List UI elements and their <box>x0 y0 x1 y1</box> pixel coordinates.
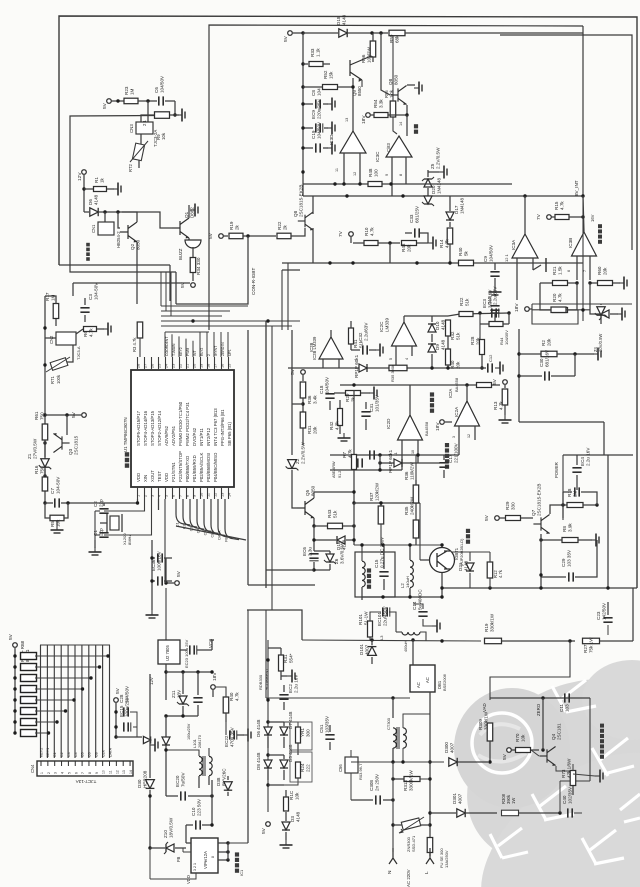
svg-text:11: 11 <box>335 168 339 172</box>
transistor Q2 <box>120 222 137 242</box>
wire R40 down <box>447 365 449 368</box>
svg-text:ADV9/P52: ADV9/P52 <box>164 425 169 446</box>
wire ct300 sec down <box>402 748 404 762</box>
svg-text:7: 7 <box>178 495 182 497</box>
wire R43 <box>314 525 327 527</box>
resistor RB1 <box>21 653 37 660</box>
wire D16 <box>314 539 336 541</box>
wire <box>361 392 370 394</box>
resistor R29c <box>506 516 521 521</box>
junction <box>196 670 199 673</box>
junction <box>226 858 229 861</box>
wire z10 <box>150 847 165 849</box>
svg-text:Z5: Z5 <box>430 163 435 169</box>
wire <box>97 328 104 330</box>
svg-text:4007: 4007 <box>457 793 462 804</box>
wire R52 wires <box>303 86 323 88</box>
svg-text:R70: R70 <box>515 733 520 742</box>
wire d38 <box>227 776 229 780</box>
wire zc path <box>490 641 570 700</box>
svg-text:R03.96-T: R03.96-T <box>358 763 363 780</box>
wire IGBT gate <box>420 559 429 561</box>
zener Z2 <box>288 460 297 469</box>
svg-text:1.5k: 1.5k <box>557 266 562 275</box>
junction <box>164 748 167 751</box>
connector CN4 <box>37 761 133 776</box>
svg-text:Z11: Z11 <box>171 690 176 698</box>
junction <box>541 696 544 699</box>
svg-text:D30: D30 <box>137 779 142 788</box>
svg-text:C8: C8 <box>95 752 99 757</box>
svg-text:KEY1: KEY1 <box>46 748 50 757</box>
resistor R43b <box>402 241 417 246</box>
diode D28 <box>162 737 170 745</box>
svg-text:3.3u: 3.3u <box>307 547 312 556</box>
svg-text:C18: C18 <box>319 385 324 394</box>
resistor R35b <box>389 365 407 371</box>
junction <box>408 543 411 546</box>
svg-text:13V: 13V <box>176 689 181 698</box>
wire y762 long <box>351 761 444 763</box>
junction <box>65 413 68 416</box>
svg-text:IC2B: IC2B <box>309 342 314 352</box>
svg-text:D18: D18 <box>336 16 341 25</box>
svg-text:100/2W: 100/2W <box>366 47 371 63</box>
ground R6 <box>103 328 108 330</box>
wire net y196 <box>303 195 583 197</box>
wire EC3 down <box>494 313 496 322</box>
wire <box>323 147 328 149</box>
inductor L101 pri <box>199 756 202 775</box>
ground Q1 <box>190 209 195 211</box>
svg-text:R60: R60 <box>597 266 602 275</box>
wire to IC3C <box>406 115 408 136</box>
diode D16 <box>337 536 345 544</box>
svg-text:10k: 10k <box>161 132 166 140</box>
junction kb <box>72 698 75 701</box>
wire c10 <box>186 824 193 826</box>
wire coil top <box>361 545 363 561</box>
ground R8 <box>591 539 596 541</box>
wire kb row <box>35 710 66 712</box>
wire y570 left <box>266 569 314 571</box>
box heating coil <box>355 552 395 597</box>
junction <box>66 501 69 504</box>
label IC1 cjk <box>235 869 239 873</box>
resistor R21 <box>553 281 568 286</box>
wire <box>343 525 354 527</box>
wire <box>613 282 620 284</box>
capacitor EC4b <box>574 487 576 496</box>
wire Q5 emitter <box>313 518 315 526</box>
svg-text:R40: R40 <box>229 692 234 701</box>
wire c51 <box>329 725 331 732</box>
ground c14b <box>432 625 437 627</box>
svg-text:750: 750 <box>39 412 44 420</box>
op-amp IC3B <box>572 232 597 256</box>
wire net y455 <box>330 454 459 456</box>
wire center vert A <box>265 321 267 585</box>
resistor R30b <box>477 383 492 388</box>
svg-text:6: 6 <box>171 495 175 497</box>
svg-text:4.7k: 4.7k <box>444 239 449 248</box>
capacitor C19 <box>315 143 317 152</box>
wire R32-R40 <box>447 336 449 349</box>
wire kb row <box>35 677 91 679</box>
wire <box>283 702 285 710</box>
diode D9 <box>428 344 436 352</box>
svg-text:5u 400DC: 5u 400DC <box>417 589 422 610</box>
svg-text:470u 35V: 470u 35V <box>229 726 234 747</box>
junction <box>388 241 391 244</box>
5V terminal Q7 <box>495 516 500 521</box>
transistor Q3 <box>53 433 69 452</box>
resistor R19 <box>229 233 243 239</box>
svg-text:RT2: RT2 <box>128 163 133 172</box>
diode D10 <box>428 324 436 332</box>
wire <box>283 737 285 748</box>
svg-text:C51: C51 <box>319 724 324 733</box>
wire Q1 base <box>122 212 172 228</box>
zener Z1 <box>41 459 49 467</box>
resistor R44b <box>489 322 503 327</box>
svg-text:7V: 7V <box>338 230 344 237</box>
junction <box>446 366 449 369</box>
ground q4 <box>595 775 600 777</box>
svg-text:POWER: POWER <box>554 462 559 478</box>
wire Q2 emitter <box>136 242 138 304</box>
wire C29 <box>541 576 566 578</box>
svg-text:EC22: EC22 <box>224 735 229 747</box>
wire x543 <box>542 698 544 750</box>
18V terminal sync <box>440 420 445 425</box>
wire R55 to IC3C out <box>393 117 397 134</box>
wire psu mid <box>165 664 167 700</box>
svg-text:104/50V: 104/50V <box>159 75 164 93</box>
wire <box>531 749 539 751</box>
wire c11 right <box>571 697 590 699</box>
wire y270 <box>282 269 300 271</box>
junction <box>358 182 361 185</box>
svg-text:18V: 18V <box>514 303 520 312</box>
label sync cjk <box>430 409 434 413</box>
svg-text:3: 3 <box>150 495 154 497</box>
svg-text:4.7k: 4.7k <box>234 692 239 701</box>
svg-text:TJC3-2A: TJC3-2A <box>153 130 158 147</box>
capacitor C29 <box>568 572 570 581</box>
diode D101 <box>368 647 377 656</box>
svg-text:SB P65 (B1): SB P65 (B1) <box>227 422 232 446</box>
wire x380 vert <box>379 455 381 470</box>
capacitor EC3 <box>490 305 499 307</box>
5V terminal q4 <box>507 748 512 753</box>
resistor R22 <box>277 233 291 239</box>
svg-text:1k: 1k <box>99 177 104 183</box>
svg-text:R101: R101 <box>358 614 363 625</box>
svg-text:R10: R10 <box>364 227 369 236</box>
wire Q9 collector down <box>352 78 354 131</box>
svg-text:D3: D3 <box>290 816 295 822</box>
diode RP1P b <box>394 459 402 467</box>
wire gate from R <box>419 503 421 560</box>
svg-text:1.1k: 1.1k <box>315 48 320 57</box>
7V terminal <box>349 232 354 237</box>
ground R5 <box>56 525 58 530</box>
svg-text:C14: C14 <box>412 601 417 610</box>
svg-text:104/50V: 104/50V <box>488 244 493 262</box>
svg-text:1W: 1W <box>511 798 516 804</box>
wire C28 chain <box>115 703 117 737</box>
wire x575 <box>574 354 576 376</box>
capacitor C14x <box>418 611 427 613</box>
capacitor C1 <box>99 532 108 534</box>
wire y698 long <box>265 610 267 698</box>
op-amp IC2A <box>455 401 480 426</box>
svg-text:SSD-471: SSD-471 <box>411 835 416 852</box>
svg-text:R29: R29 <box>505 501 510 510</box>
wire gnd q4 <box>573 774 595 776</box>
keyboard column wire C6 <box>88 645 90 758</box>
junction <box>517 352 520 355</box>
wire osc top <box>73 282 190 284</box>
wire r73 down <box>572 786 574 795</box>
wire x314 low <box>313 526 315 551</box>
wire <box>188 795 212 797</box>
wire R14 down <box>449 244 451 263</box>
inductor L101 sec <box>209 756 212 775</box>
wire R7 down <box>353 470 355 503</box>
resistor R41 <box>349 328 354 344</box>
svg-text:C3: C3 <box>88 294 93 300</box>
wire net y463 <box>380 462 440 464</box>
resistor in aux box <box>551 307 566 313</box>
wire net y545 <box>354 544 442 546</box>
resistor R40b <box>459 260 474 266</box>
svg-text:13: 13 <box>220 493 224 497</box>
5V terminal rail <box>288 31 293 36</box>
junction <box>82 187 85 190</box>
wire q4 emitter <box>556 766 573 771</box>
wire <box>568 283 577 310</box>
wire C30 <box>519 375 542 377</box>
svg-text:R37: R37 <box>369 492 374 501</box>
wire r44b R <box>503 323 509 325</box>
capacitor EC15 <box>123 722 125 731</box>
resistor RB3 <box>21 675 37 682</box>
svg-text:IGBT1: IGBT1 <box>454 547 459 560</box>
svg-text:2.2u/63V: 2.2u/63V <box>492 286 497 305</box>
wire viper left pins <box>186 842 191 844</box>
wire x248 long psu <box>247 610 249 782</box>
svg-text:20k: 20k <box>602 267 607 275</box>
IGBT1 <box>430 548 455 573</box>
resistor R13 <box>502 389 508 405</box>
wire Z5 <box>427 170 429 177</box>
svg-text:100k: 100k <box>56 374 61 384</box>
svg-text:18: 18 <box>206 364 210 368</box>
svg-text:25: 25 <box>157 364 161 368</box>
wire <box>443 470 445 478</box>
keyboard column wire KEY1 <box>46 645 48 758</box>
wire <box>388 114 407 116</box>
5V terminal buzzer <box>191 283 196 288</box>
junction <box>226 841 229 844</box>
ground r31b <box>287 675 292 677</box>
svg-text:R31: R31 <box>283 654 288 663</box>
svg-text:VDD: VDD <box>136 473 141 482</box>
junction <box>401 760 404 763</box>
label zc section cjk <box>600 755 604 759</box>
wire <box>64 503 68 518</box>
svg-text:2SC1815: 2SC1815 <box>73 435 78 455</box>
svg-text:R31: R31 <box>307 425 312 434</box>
svg-text:IHYNT: IHYNT <box>214 346 218 356</box>
ground ec22 <box>243 734 248 736</box>
junction <box>416 453 419 456</box>
wire <box>164 580 172 582</box>
svg-text:100u/16V: 100u/16V <box>156 550 161 571</box>
wire <box>227 792 229 796</box>
wire x175 down <box>174 101 176 115</box>
resistor R35c <box>413 520 419 538</box>
svg-text:10k: 10k <box>55 519 60 527</box>
wire C6 right <box>165 100 175 102</box>
ground d3 <box>285 840 287 845</box>
wire R37 <box>380 503 382 506</box>
capacitor C308 <box>375 795 377 804</box>
svg-text:4.7k: 4.7k <box>498 401 503 410</box>
wire d21 join <box>451 551 490 553</box>
junction <box>381 595 384 598</box>
svg-text:R54: R54 <box>373 99 378 108</box>
svg-text:D9: D9 <box>435 344 440 350</box>
svg-text:C3: C3 <box>67 752 71 757</box>
svg-text:BA4558: BA4558 <box>424 421 429 436</box>
svg-text:300: 300 <box>305 729 310 737</box>
svg-text:C6: C6 <box>88 752 92 757</box>
wire r27 right <box>600 640 634 642</box>
filter C56 <box>345 757 358 773</box>
junction <box>541 748 544 751</box>
svg-text:D10: D10 <box>435 321 440 330</box>
svg-text:2: 2 <box>47 772 51 774</box>
junction <box>210 794 213 797</box>
svg-text:AC: AC <box>425 677 430 683</box>
third border line top-right <box>500 35 632 250</box>
svg-text:240k/2W: 240k/2W <box>409 496 414 515</box>
svg-text:22: 22 <box>178 364 182 368</box>
svg-text:R13: R13 <box>493 401 498 410</box>
junction kb rail <box>13 687 16 690</box>
resistor R7 <box>352 455 357 470</box>
junction <box>301 31 304 34</box>
wire <box>323 103 328 105</box>
svg-text:R1C: R1C <box>289 790 294 800</box>
svg-text:4.7k: 4.7k <box>369 227 374 236</box>
resistor R70 <box>516 748 531 753</box>
diode D300 <box>449 758 457 766</box>
svg-text:R36: R36 <box>404 471 409 480</box>
svg-text:C4: C4 <box>74 752 78 757</box>
wire Q8b collector <box>312 196 314 214</box>
18V terminal <box>366 113 371 118</box>
resistor R60 <box>598 281 613 286</box>
capacitor C30 <box>544 371 546 380</box>
svg-text:CN3: CN3 <box>129 124 134 133</box>
junction <box>488 760 491 763</box>
junction <box>581 194 584 197</box>
wire <box>202 824 212 826</box>
wire 18V psu <box>212 690 214 697</box>
border bottom-left segment <box>59 264 170 266</box>
junction <box>181 714 184 717</box>
junction <box>465 383 468 386</box>
svg-text:Z2: Z2 <box>295 458 300 464</box>
transistor Q4 <box>539 747 555 766</box>
svg-text:4148: 4148 <box>440 319 445 330</box>
wire Z1 <box>44 440 46 457</box>
keyboard column wire DATA <box>109 645 111 758</box>
wire tail <box>158 499 160 510</box>
junction <box>379 501 382 504</box>
label fan motor <box>86 257 90 261</box>
wire vp2 <box>218 851 228 853</box>
svg-text:R2: R2 <box>541 340 546 346</box>
svg-text:4: 4 <box>61 772 65 774</box>
svg-text:2k: 2k <box>350 396 355 402</box>
resistor YR1 <box>296 727 301 743</box>
svg-text:KEY2: KEY2 <box>39 748 43 757</box>
svg-text:TJC7-13A: TJC7-13A <box>75 779 97 784</box>
svg-text:EC6: EC6 <box>302 547 307 556</box>
diode D31 <box>143 736 150 743</box>
svg-text:C10: C10 <box>191 807 196 816</box>
svg-text:10: 10 <box>411 450 415 454</box>
wire l101 bot <box>198 776 200 788</box>
wire ec101 wires <box>370 612 381 621</box>
5V terminal R36 <box>301 370 306 375</box>
svg-text:EC36: EC36 <box>151 559 156 571</box>
wire 18V box <box>529 308 532 310</box>
svg-text:1N4148: 1N4148 <box>459 197 464 214</box>
wire d101 join <box>371 663 373 665</box>
wire viper right pins <box>218 842 228 844</box>
junction <box>266 783 269 786</box>
IC1 VIPer12A <box>191 838 218 873</box>
junction rail <box>301 85 304 88</box>
resistor R29b <box>346 391 361 396</box>
svg-text:N: N <box>387 870 393 874</box>
wire y722 <box>268 721 284 723</box>
capacitor EC20 <box>180 791 182 800</box>
buzzer BUZZ <box>185 240 201 248</box>
wire r101 bot <box>369 637 371 641</box>
label drive cjk <box>414 130 418 134</box>
junction <box>301 402 304 405</box>
wire 5V to R19 <box>223 235 228 237</box>
capacitor C9 <box>490 271 499 273</box>
wire ct300 down <box>392 748 394 762</box>
junction <box>352 383 355 386</box>
wire kb row <box>35 666 100 668</box>
wire 5V psu <box>166 582 174 584</box>
wire D10-D9 <box>431 334 433 342</box>
svg-text:R40: R40 <box>458 247 463 256</box>
wire IC3D out R <box>359 153 361 184</box>
wire kb 5V rail <box>14 648 16 734</box>
wire C18 down <box>329 401 331 410</box>
junction kb <box>81 687 84 690</box>
